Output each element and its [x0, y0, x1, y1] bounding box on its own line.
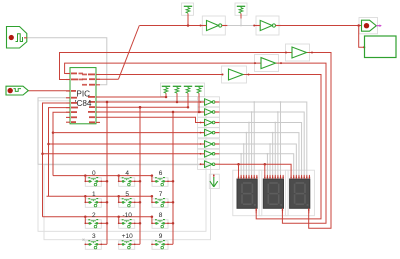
push button S0 — [84, 170, 102, 186]
wire segment net a from gate U4A to displays — [220, 101, 307, 176]
svg-text:0: 0 — [92, 170, 96, 177]
wire segment net f from gate U4F to displays — [220, 153, 294, 176]
microcontroller U1 PIC16C84 — [66, 68, 100, 124]
wire segment net c from gate U4C to displays — [220, 122, 302, 176]
wire net n3 PIC to pull-up R3 — [100, 106, 189, 109]
frame around button S00 — [85, 178, 101, 187]
gate U4E — [200, 141, 220, 148]
frame around gate U4E — [198, 139, 220, 149]
frame around inverter U2B — [256, 16, 279, 35]
display DS2 7-segment — [263, 175, 284, 213]
gate U4D — [200, 129, 220, 136]
svg-text:6: 6 — [159, 170, 163, 177]
gate U4F — [200, 151, 220, 158]
wire segment net e from gate U4E to displays — [220, 143, 297, 176]
wire keypad column 2 — [135, 106, 142, 244]
gate U4G — [200, 161, 220, 168]
push button S2 — [84, 212, 102, 228]
push button S-10 — [118, 212, 136, 228]
push button S8 — [151, 212, 169, 228]
wire net n4 PIC to gate U4B input — [100, 111, 205, 114]
svg-text:3: 3 — [92, 233, 96, 240]
connector J2 input — [6, 86, 28, 95]
frame around buffer U3B — [255, 55, 279, 72]
gate U4A — [200, 99, 220, 106]
pull-up resistor R2 with VCC bar — [173, 86, 181, 93]
connector J3 output — [362, 20, 382, 31]
svg-text:5: 5 — [125, 191, 129, 198]
push button S7 — [151, 191, 169, 207]
frame around gate U4B — [198, 107, 220, 117]
frame around display DS1 — [233, 170, 262, 216]
wire net n5 PIC to gate U4C input — [100, 117, 205, 122]
push button S+10 — [118, 233, 136, 249]
pull-up resistor R3 with VCC bar — [184, 86, 192, 93]
wire supply R6 stub — [240, 13, 242, 18]
supply VCC R5 with resistor — [184, 6, 192, 13]
svg-text:1: 1 — [92, 191, 96, 198]
wire pull-up R2 stub — [176, 93, 178, 102]
supply VCC R6 with resistor — [237, 6, 245, 13]
wire PIC pin to buffer U3B input — [65, 63, 261, 73]
frame around button S22 — [152, 220, 168, 229]
frame around gate U4G — [198, 159, 220, 169]
push button S9 — [151, 233, 169, 249]
wire buffer U3A output to display DS1 common — [243, 75, 321, 219]
svg-text:2: 2 — [92, 212, 96, 219]
frame around button S30 — [85, 241, 101, 250]
module M1 box — [365, 36, 397, 58]
frame around button S02 — [152, 178, 168, 187]
inverter U2A — [200, 20, 228, 30]
wire pull-up R4 stub — [198, 93, 200, 112]
buffer U3A — [222, 69, 250, 80]
wire segment net d from gate U4D to displays — [220, 132, 299, 176]
frame around display DS3 — [285, 170, 314, 216]
pull-up resistor R4 with VCC bar — [195, 86, 203, 93]
svg-text:-10: -10 — [122, 212, 132, 219]
svg-text:4: 4 — [125, 170, 129, 177]
wire PIC pin RA4 diagonal to top row — [97, 26, 140, 80]
wire gate U4G output to display segment pins — [220, 163, 292, 176]
wire U2B output to connector J3 — [280, 24, 362, 27]
frame around gate U4D — [198, 127, 220, 137]
wire keypad column 3 — [168, 111, 174, 245]
frame around ground arrow — [209, 174, 219, 188]
frame around button S01 — [119, 178, 135, 187]
ground arrow symbol — [210, 174, 218, 186]
svg-text:'C84: 'C84 — [75, 99, 92, 108]
wire keypad column 1 — [101, 101, 108, 245]
svg-text:+10: +10 — [122, 233, 133, 240]
wire PIC pin to gate U4E and keypad row 2 — [47, 108, 201, 203]
wire segment net b from gate U4B to displays — [220, 111, 305, 176]
frame around button S31 — [119, 241, 135, 250]
push button S4 — [118, 170, 136, 186]
gate U4B — [200, 109, 220, 116]
frame around button S12 — [152, 199, 168, 208]
wire pull-up R1 stub — [165, 93, 167, 97]
push button S6 — [151, 170, 169, 186]
inverter U2B — [253, 20, 281, 30]
display DS3 7-segment — [290, 175, 311, 213]
buffer U3C — [285, 47, 313, 58]
push button S1 — [84, 191, 102, 207]
frame around keypad area — [38, 101, 206, 232]
wire between U2A output and U2B input — [228, 19, 257, 27]
frame around buffer U3A — [222, 66, 247, 83]
frame around button S11 — [119, 199, 135, 208]
frame around connector J3 — [359, 18, 378, 34]
connector J1 clock input — [7, 27, 28, 49]
svg-text:8: 8 — [159, 212, 163, 219]
wire PIC pin to gate U4D and keypad row 1 — [52, 112, 201, 181]
svg-text:PIC: PIC — [76, 89, 90, 98]
frame around supply R6 — [235, 3, 247, 15]
frame around gate U4A — [198, 97, 220, 107]
wire top row to inverter U2A input — [140, 24, 201, 27]
wire branch down to module M1 pin — [359, 26, 366, 49]
wire net n1 PIC to pull-up R1 — [100, 96, 167, 99]
wire PIC pin to buffer U3C input — [60, 53, 293, 80]
wire PIC pin RA3 to buffer U3A input — [100, 74, 223, 76]
wire pull-up R3 stub — [187, 93, 189, 107]
frame around gate U4F — [198, 149, 220, 159]
wire gray net to gate U4G input — [38, 98, 201, 164]
pull-up resistor R1 with VCC bar — [162, 86, 170, 93]
wire buffer U3B output to display DS2 common — [276, 63, 327, 223]
frame around keypad area inner — [44, 165, 211, 241]
frame around pull-up resistor row — [161, 83, 205, 97]
frame around button S32 — [152, 241, 168, 250]
wire buffer U3C output to display DS3 common — [307, 53, 332, 229]
frame around button S20 — [85, 220, 101, 229]
svg-text:9: 9 — [159, 233, 163, 240]
wire clock net from J1 to PIC OSC1 — [27, 38, 107, 85]
frame around inverter U2A — [202, 16, 225, 35]
buffer U3B — [254, 58, 282, 69]
frame around button S10 — [85, 199, 101, 208]
frame around button S21 — [119, 220, 135, 229]
wire net n2 PIC to gate U4A input — [100, 101, 205, 104]
wire connector J2 to PIC — [28, 90, 70, 92]
gate U4C — [200, 119, 220, 126]
frame around display DS2 — [259, 170, 288, 216]
wire PIC pin to gate U4F and keypad row 3 — [41, 103, 200, 223]
display DS1 7-segment — [237, 175, 258, 213]
svg-text:7: 7 — [159, 191, 163, 198]
frame around buffer U3C — [286, 44, 310, 61]
frame around supply R5 — [182, 3, 194, 15]
push button S3 — [84, 233, 102, 249]
push button S5 — [118, 191, 136, 207]
wire supply R5 stub — [187, 13, 189, 25]
frame around gate U4C — [198, 117, 220, 127]
